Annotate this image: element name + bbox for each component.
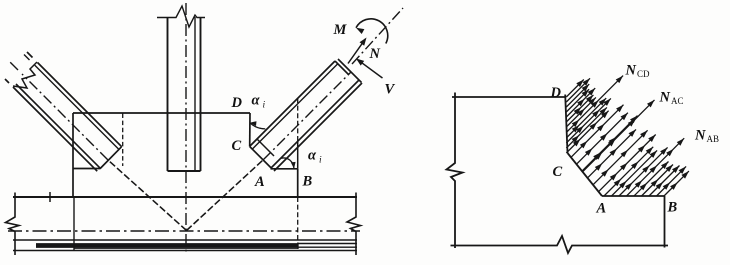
svg-text:C: C xyxy=(553,164,563,180)
svg-text:CD: CD xyxy=(637,69,650,79)
svg-text:D: D xyxy=(550,85,562,101)
svg-text:B: B xyxy=(667,200,678,216)
svg-text:N: N xyxy=(694,128,706,144)
svg-text:i: i xyxy=(319,156,322,166)
svg-text:α: α xyxy=(308,148,317,164)
svg-text:N: N xyxy=(369,46,381,62)
svg-text:A: A xyxy=(596,201,607,217)
svg-text:A: A xyxy=(254,174,265,190)
svg-text:V: V xyxy=(385,82,396,98)
svg-text:D: D xyxy=(231,95,243,111)
svg-text:M: M xyxy=(333,22,348,38)
svg-text:AB: AB xyxy=(707,134,720,144)
svg-text:N: N xyxy=(625,63,637,79)
svg-text:C: C xyxy=(232,138,242,154)
svg-text:i: i xyxy=(263,101,266,111)
svg-text:α: α xyxy=(252,93,261,109)
svg-text:B: B xyxy=(302,174,313,190)
svg-text:AC: AC xyxy=(671,96,684,106)
svg-text:N: N xyxy=(659,90,671,106)
